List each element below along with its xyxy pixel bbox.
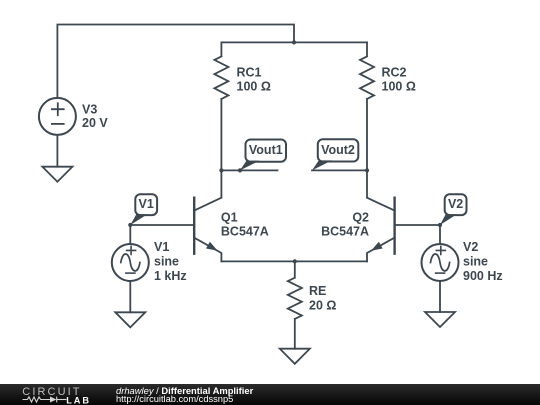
voltage source V2 — [422, 225, 503, 283]
node V2 attach — [438, 223, 442, 227]
ground under V1 — [115, 312, 145, 327]
wire Vout1 stub — [221, 169, 277, 171]
flag V1 — [130, 194, 157, 225]
transistor Q1 — [194, 170, 269, 261]
node RC2/collector junction — [365, 168, 369, 172]
svg-text:Q1: Q1 — [221, 210, 238, 224]
svg-text:sine: sine — [154, 255, 179, 269]
svg-text:V2: V2 — [463, 240, 478, 254]
wire Vout2 stub — [312, 169, 367, 171]
wire collector rail RC1 to RC2 — [221, 41, 367, 43]
wire V1 to ground — [129, 281, 131, 312]
CircuitLab logo — [0, 384, 110, 405]
flag Vout2 — [312, 139, 358, 170]
flag Vout1 — [240, 140, 286, 171]
svg-text:Vout2: Vout2 — [321, 143, 355, 157]
svg-text:RC2: RC2 — [382, 65, 407, 79]
voltage source V1 — [112, 225, 187, 283]
svg-text:BC547A: BC547A — [221, 225, 269, 239]
node emitter/RE junction — [293, 259, 297, 263]
svg-text:V3: V3 — [82, 103, 97, 117]
svg-text:100 Ω: 100 Ω — [237, 80, 271, 94]
svg-text:RE: RE — [309, 284, 326, 298]
svg-text:V1: V1 — [154, 240, 169, 254]
svg-text:BC547A: BC547A — [321, 225, 369, 239]
flag V2 — [440, 194, 467, 225]
ground under RE — [280, 349, 310, 364]
wire base Q2 — [395, 224, 440, 226]
wire V2 to ground — [439, 281, 441, 312]
svg-text:V1: V1 — [139, 197, 154, 211]
ground under V2 — [425, 312, 455, 327]
node Vout1 attach — [238, 168, 242, 172]
wire top rail from V3 to junction — [57, 25, 294, 98]
node top junction — [292, 40, 296, 44]
transistor Q2 — [321, 170, 395, 261]
ground under V3 — [42, 167, 72, 182]
svg-text:V2: V2 — [448, 197, 463, 211]
wire emitter rail — [221, 260, 367, 262]
svg-text:900 Hz: 900 Hz — [463, 269, 503, 283]
svg-text:RC1: RC1 — [237, 65, 262, 79]
node RC1/collector junction — [219, 168, 223, 172]
svg-text:sine: sine — [463, 255, 488, 269]
resistor RE — [288, 261, 337, 348]
footer bar — [0, 384, 540, 405]
voltage source V3 — [39, 98, 108, 135]
node V1 attach — [128, 223, 132, 227]
svg-text:20 V: 20 V — [82, 116, 108, 130]
resistor RC1 — [214, 42, 270, 170]
wire base Q1 — [130, 224, 194, 226]
svg-text:100 Ω: 100 Ω — [382, 80, 416, 94]
svg-text:Vout1: Vout1 — [249, 143, 283, 157]
svg-text:20 Ω: 20 Ω — [309, 298, 336, 312]
wire V3 to ground — [56, 135, 58, 167]
resistor RC2 — [360, 42, 416, 170]
svg-text:Q2: Q2 — [352, 210, 369, 224]
svg-text:1 kHz: 1 kHz — [154, 269, 187, 283]
svg-text:LAB: LAB — [66, 395, 91, 405]
